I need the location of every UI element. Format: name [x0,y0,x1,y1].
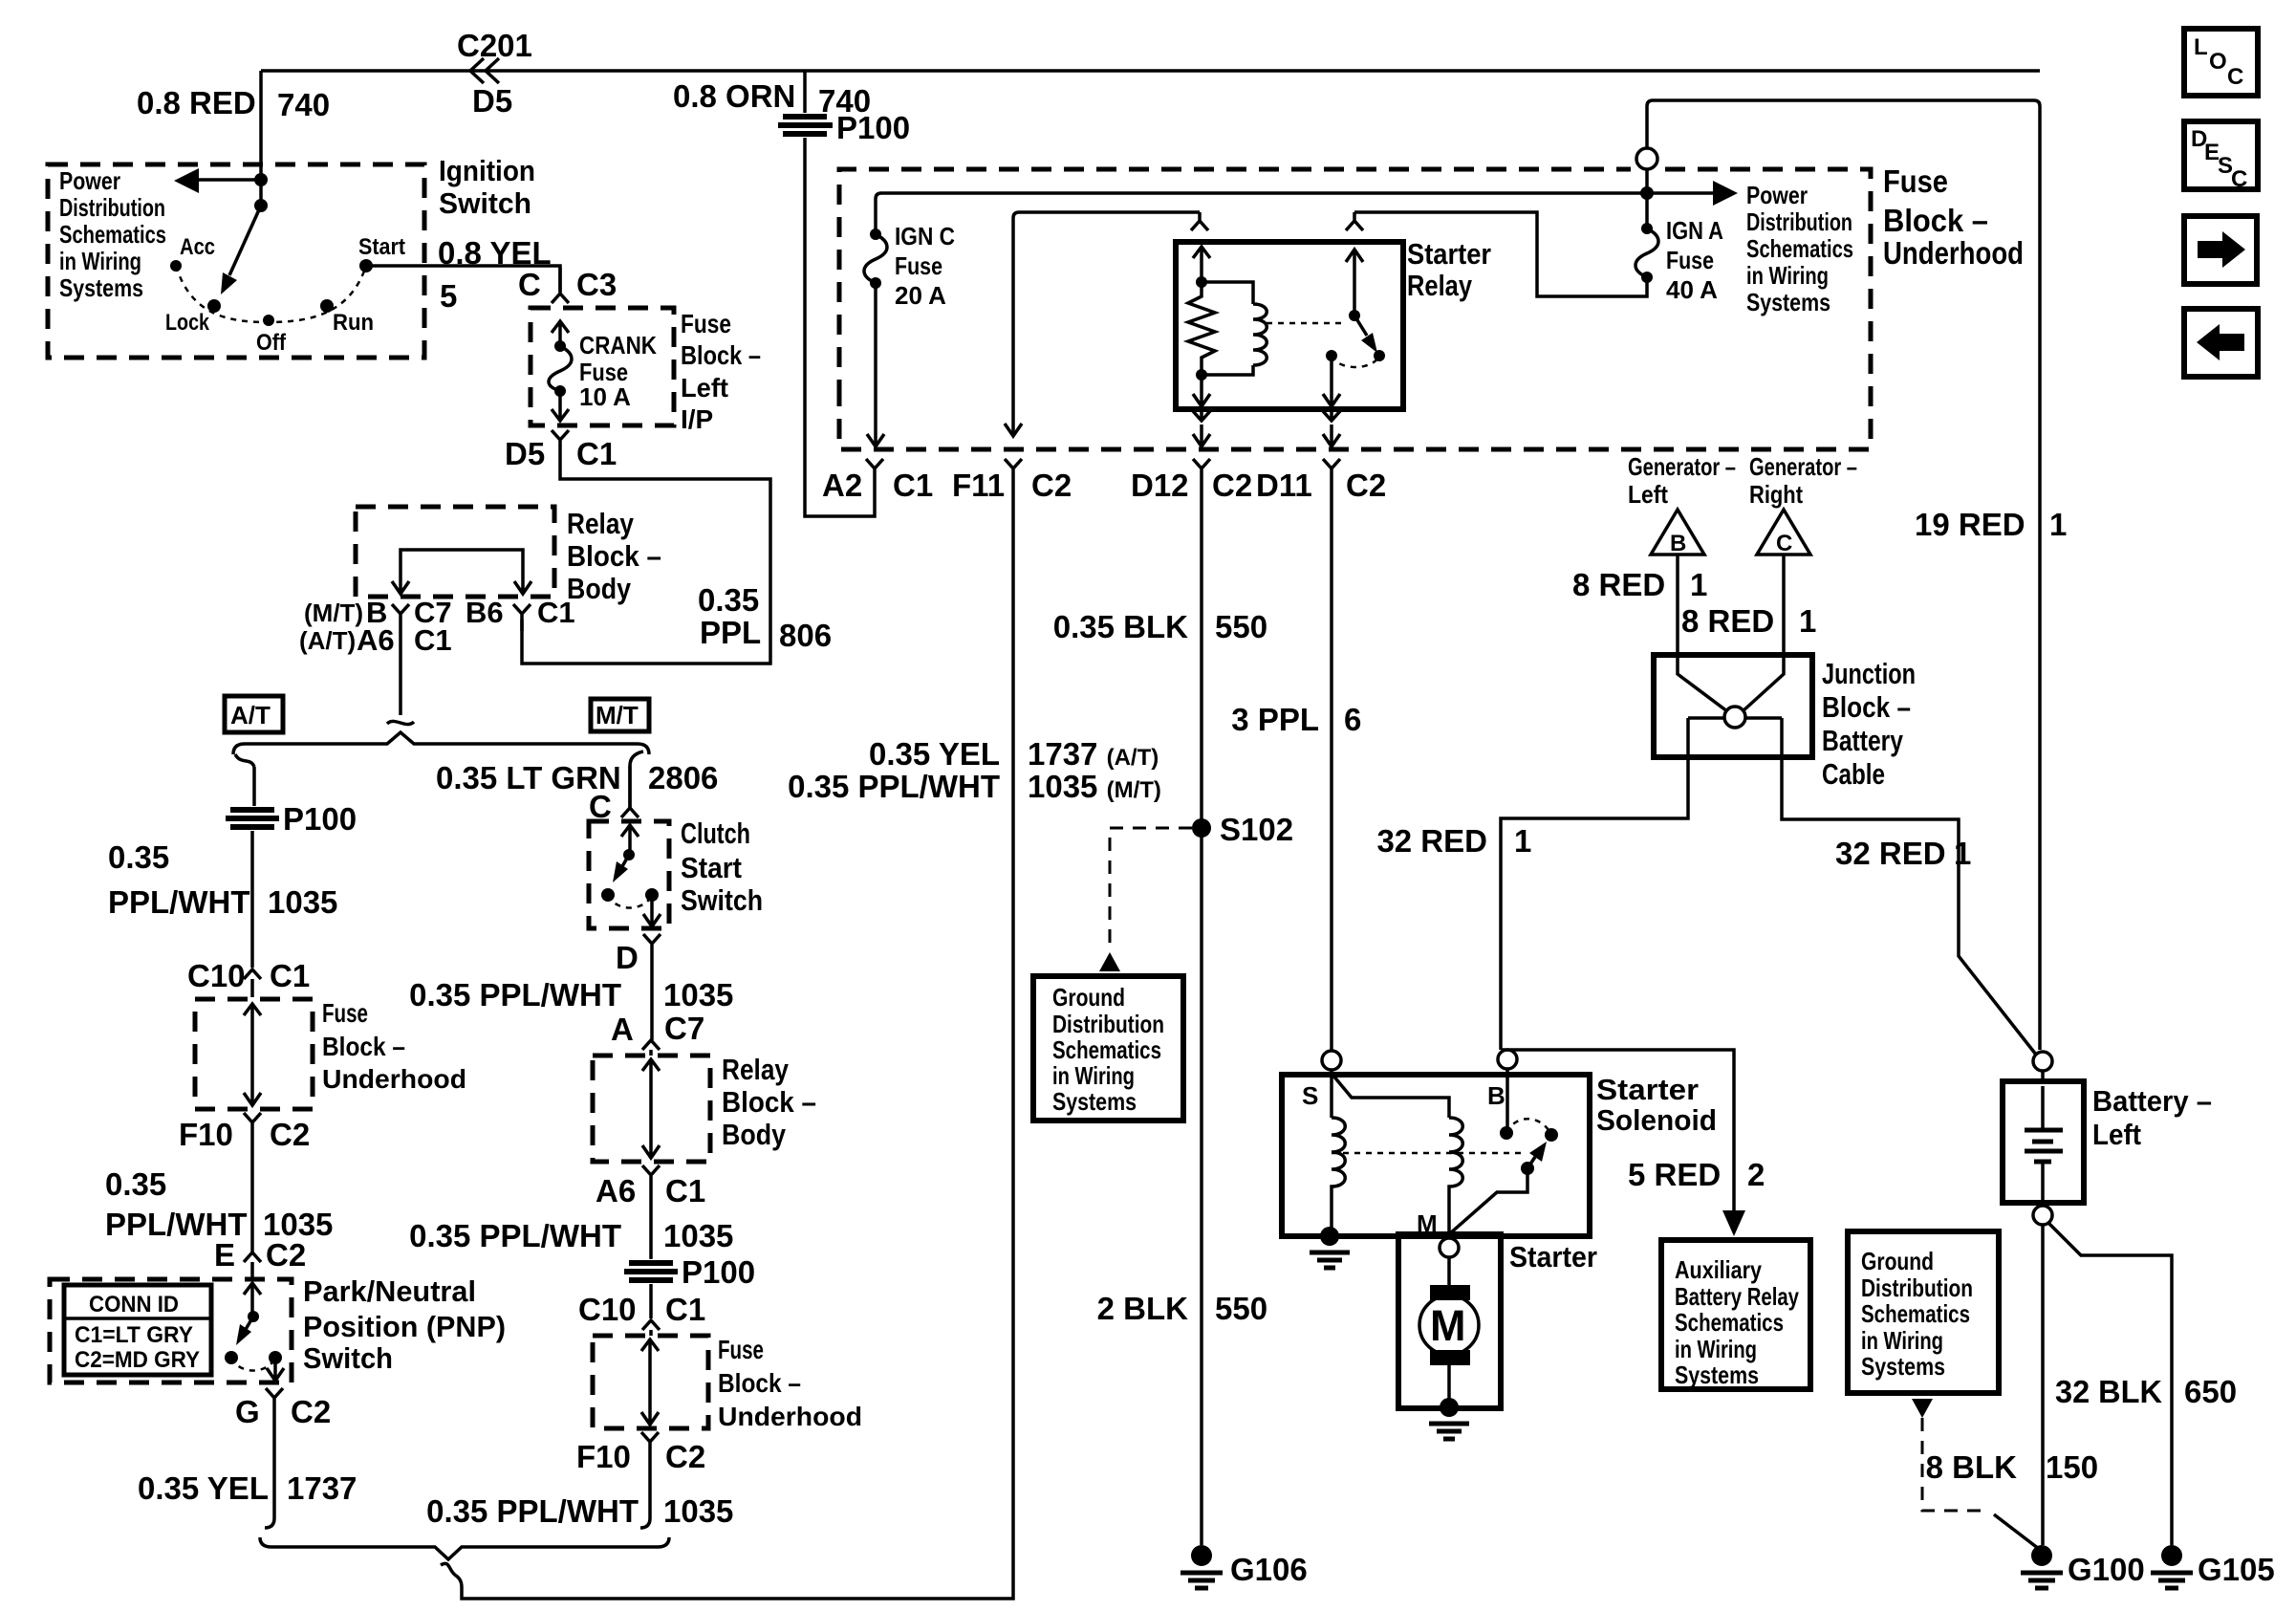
svg-text:(M/T): (M/T) [304,599,363,627]
switch arm [1354,316,1367,336]
svg-text:B: B [1487,1081,1505,1110]
svg-text:in Wiring: in Wiring [1052,1061,1135,1090]
svg-text:C1: C1 [537,596,575,629]
svg-text:C: C [589,789,612,824]
wire P100 to C10 [250,831,254,968]
LOC box [2184,29,2258,96]
ground G105 [2161,1545,2182,1566]
wire IGN A output to relay switch [1354,212,1647,296]
triangle B [1651,510,1704,555]
NO output arrow down [1323,356,1340,406]
switch arm arrow to Lock [229,206,261,275]
coil output arrow down [1193,375,1210,406]
svg-text:Starter: Starter [1596,1073,1699,1106]
wire M to motor [1447,1257,1451,1289]
svg-text:C3: C3 [576,267,617,302]
svg-text:Solenoid: Solenoid [1596,1103,1717,1137]
svg-text:32 RED: 32 RED [1376,823,1487,859]
svg-text:C7: C7 [664,1011,704,1046]
svg-text:C10: C10 [187,958,246,993]
wire gen B down [1676,555,1679,655]
svg-text:Battery: Battery [1822,724,1904,757]
connector A6-C1 [642,1165,660,1190]
svg-text:1: 1 [1954,836,1971,871]
contact dot Run [320,299,334,313]
split brace A/T vs M/T [233,732,649,754]
pivot dot [1521,1162,1534,1175]
internal jumper wire [392,550,531,594]
svg-text:Systems: Systems [59,273,143,302]
wire: 0.8 RED drop to ignition switch [259,71,263,206]
svg-text:Systems: Systems [1861,1352,1945,1381]
svg-text:6: 6 [1344,702,1361,737]
left arrow box [2184,309,2258,377]
connector A-C7 [642,1040,660,1056]
switch arm with arrowhead [245,1317,253,1331]
svg-text:Distribution: Distribution [1052,1010,1164,1038]
internal arrow wire [642,1059,660,1158]
svg-text:Starter: Starter [1407,237,1491,271]
svg-text:0.35 PPL/WHT: 0.35 PPL/WHT [788,769,1000,804]
fuse block underhood dashed box (left) [195,999,313,1109]
svg-text:0.35 BLK: 0.35 BLK [1053,609,1188,644]
fuse block underhood dashed box [839,169,1871,449]
svg-text:8 BLK: 8 BLK [1926,1449,2018,1485]
svg-text:F10: F10 [179,1117,233,1152]
svg-text:C2: C2 [1212,468,1252,503]
fuse IGN C 20A [870,229,881,240]
svg-text:1737: 1737 [287,1470,357,1506]
wire motor to ground [1447,1365,1451,1407]
svg-text:20 A: 20 A [895,281,946,310]
svg-text:Schematics: Schematics [1052,1035,1161,1064]
svg-text:0.35 YEL: 0.35 YEL [869,736,1000,772]
svg-text:Relay: Relay [567,507,635,540]
connector C-C3 [552,267,569,303]
battery top circle [2033,1052,2052,1071]
relay block body dashed box [356,507,554,597]
contact dot [225,1351,238,1364]
internal: S to coils [1332,1075,1449,1118]
wire: D5/C1 loop to relay block body B6/C1 (0.35 PPL 806) [522,450,770,664]
svg-text:Fuse: Fuse [681,309,731,338]
svg-text:0.35 PPL/WHT: 0.35 PPL/WHT [426,1493,639,1529]
junction block battery cable box [1654,655,1812,757]
svg-text:C1: C1 [414,623,452,657]
ignition switch dashed box [48,164,424,358]
input arrow [621,825,639,852]
connector F10-C2 [244,1113,261,1138]
ground G106 [1191,1545,1212,1566]
motor ground [1440,1398,1459,1417]
svg-text:Ground: Ground [1861,1247,1934,1275]
triangle C [1757,510,1810,555]
switch arm with arrowhead [1527,1157,1535,1168]
node dot [254,199,268,212]
DESC box [2184,121,2258,189]
connector C10-C1 [642,1320,660,1336]
svg-text:Power: Power [1746,181,1808,209]
svg-text:2 BLK: 2 BLK [1097,1291,1189,1326]
terminal circle on box edge [1645,106,1649,148]
coil [1202,282,1267,375]
connector A2-C1 [866,459,883,495]
svg-text:Lock: Lock [165,310,210,336]
wire F10 down [640,1457,650,1528]
svg-text:Systems: Systems [1746,288,1830,316]
svg-text:Block –: Block – [1883,203,1988,238]
contact dot Acc [170,260,182,272]
svg-text:C1: C1 [576,436,617,471]
junction dot on bus [1640,186,1654,200]
contact dot Off [263,315,274,326]
internal arrow wire [641,1339,659,1425]
svg-text:8 RED: 8 RED [1572,567,1665,602]
svg-text:P100: P100 [682,1254,755,1290]
dashed arc [231,1358,275,1371]
wire D12 down to G106 [1200,483,1203,1545]
svg-text:550: 550 [1215,1291,1267,1326]
svg-text:Fuse: Fuse [1666,246,1714,274]
svg-text:Schematics: Schematics [1746,234,1853,263]
svg-text:C1: C1 [665,1173,705,1208]
svg-text:G: G [235,1394,260,1429]
NO contact dot [1326,350,1337,361]
connector D5-C1 [552,430,569,450]
relay block body #2 dashed box [593,1056,710,1162]
svg-text:C2: C2 [270,1117,310,1152]
connector into relay coil [1191,212,1208,230]
svg-text:650: 650 [2184,1374,2237,1409]
svg-text:0.35 PPL/WHT: 0.35 PPL/WHT [409,977,621,1012]
ground distribution schematics box [1848,1231,1999,1393]
svg-text:8 RED: 8 RED [1681,603,1774,639]
output arrow down [267,1358,284,1381]
fuse CRANK 10A [554,340,566,352]
svg-text:C2: C2 [291,1394,331,1429]
internal V wires [1678,655,1784,711]
connector C201 double chevron [470,58,499,83]
svg-text:C: C [2231,166,2247,192]
svg-text:Power: Power [59,166,120,195]
svg-text:806: 806 [779,618,832,653]
B pin into box [1505,1069,1509,1133]
svg-text:Block –: Block – [681,340,761,370]
wire: Start output 0.8 YEL [366,266,560,292]
svg-text:P100: P100 [836,110,910,145]
M/T tag box [591,699,649,731]
svg-text:Relay: Relay [722,1053,790,1086]
wire: down from B/A6 to A/T-M/T split [399,626,402,715]
svg-text:1035: 1035 [663,1218,733,1253]
svg-text:Distribution: Distribution [59,193,165,222]
svg-text:0.35: 0.35 [105,1166,166,1202]
svg-text:Ignition: Ignition [439,154,535,187]
coil 1 [1332,1118,1345,1236]
svg-text:PPL/WHT: PPL/WHT [108,884,249,920]
svg-text:Block –: Block – [718,1368,801,1398]
fuse IGN A 40A [1641,223,1653,234]
connector F11-C2 [1005,459,1022,483]
wire P100 to C10 [649,1284,653,1318]
svg-text:Block –: Block – [567,539,661,573]
svg-text:Generator –: Generator – [1628,452,1736,481]
break squiggle [387,721,414,724]
svg-text:C2: C2 [1346,468,1386,503]
dashed arc of ignition positions [176,266,366,322]
merge brace [260,1537,669,1559]
wire: merged output to F11 [456,483,1013,1599]
break squiggle [235,754,254,767]
svg-text:Left: Left [2092,1118,2141,1151]
svg-text:Right: Right [1749,480,1803,509]
wire 19 RED from fuse block to battery [1647,100,2040,1050]
svg-text:A6: A6 [357,623,395,657]
svg-text:M: M [1430,1301,1466,1350]
svg-text:Fuse: Fuse [718,1335,764,1364]
svg-text:Systems: Systems [1675,1361,1759,1389]
wire down to P100 [252,767,256,806]
dashed actuator link [1267,322,1343,325]
svg-text:C2: C2 [665,1439,705,1474]
svg-text:IGN A: IGN A [1666,216,1723,245]
wire D to A [650,956,654,1040]
svg-text:Distribution: Distribution [1861,1274,1973,1302]
svg-text:1035: 1035 [663,1493,733,1529]
svg-text:D12: D12 [1131,468,1189,503]
battery box [2003,1081,2084,1203]
internal circle node [1724,707,1745,728]
grommet P100 [778,117,833,134]
svg-text:Underhood: Underhood [1883,235,2024,271]
dashed arc [1332,356,1379,367]
wire A6 to P100 [649,1190,653,1259]
svg-text:0.35: 0.35 [698,582,759,618]
wire: arrow to power distribution (left) [196,178,261,182]
switch common arrow up [1346,250,1363,316]
svg-text:C: C [1776,531,1792,556]
svg-text:740: 740 [277,87,330,122]
A/T tag box [225,696,283,732]
auxiliary battery relay schematics box [1661,1240,1810,1389]
connector B/A6 - C7/C1 [392,604,409,626]
wire P100 down to A2 [805,138,875,516]
svg-text:G105: G105 [2198,1552,2275,1587]
svg-text:C2: C2 [266,1237,306,1273]
break squiggle [630,751,643,766]
svg-text:D11: D11 [1256,468,1312,503]
svg-text:1035: 1035 [268,884,337,920]
coil1 ground [1320,1227,1339,1246]
svg-text:Ground: Ground [1052,983,1125,1012]
wire 32 RED into B + 5 RED branch [1501,1050,1734,1212]
svg-text:D: D [616,940,639,975]
ground distribution schematics box [1033,976,1183,1121]
wire battery to G100 [2041,1225,2045,1545]
battery bottom circle [2033,1206,2052,1225]
contact dot [645,888,659,902]
triangle arrow below [1912,1399,1933,1418]
svg-text:IGN C: IGN C [895,222,955,250]
connector C10-C1 [244,969,261,997]
ground G100 [2031,1545,2052,1566]
svg-text:1: 1 [1799,603,1816,639]
svg-text:1: 1 [1690,567,1707,602]
arrow up inside [552,321,569,346]
svg-text:C1: C1 [270,958,310,993]
grommet P100 [624,1263,678,1280]
break squiggle [441,1563,456,1576]
svg-text:A2: A2 [822,468,862,503]
svg-text:Schematics: Schematics [1861,1299,1970,1328]
coil input arrow [1193,247,1210,282]
svg-text:2806: 2806 [648,760,718,795]
svg-text:Switch: Switch [303,1341,393,1375]
dashed arc [608,895,652,908]
svg-text:Distribution: Distribution [1746,207,1852,236]
wire D11 down to S terminal [1330,483,1333,1050]
svg-text:Block –: Block – [322,1032,405,1061]
svg-text:10 A: 10 A [579,382,631,411]
wire down to C [628,766,632,808]
svg-text:G100: G100 [2068,1552,2145,1587]
wire: top horizontal 0.8 RED / 0.8 ORN bus [261,69,2040,73]
svg-text:19 RED: 19 RED [1915,507,2025,542]
svg-text:O: O [2209,49,2227,75]
relay outputs through fuse block bottom [1193,409,1210,446]
svg-text:C1: C1 [893,468,933,503]
svg-text:Park/Neutral: Park/Neutral [303,1274,476,1308]
starter solenoid box [1282,1075,1590,1236]
coil 2 [1449,1118,1462,1236]
arm end dot [1374,350,1385,361]
svg-text:P100: P100 [283,801,357,837]
svg-text:Start: Start [681,851,742,884]
connector D [643,934,661,956]
svg-text:Run: Run [333,310,374,336]
wire gen C down [1782,555,1786,655]
svg-text:Block –: Block – [722,1085,816,1119]
svg-text:L: L [2194,34,2208,60]
svg-text:in Wiring: in Wiring [1675,1335,1757,1363]
svg-text:32 RED: 32 RED [1835,836,1946,871]
svg-text:C1: C1 [665,1292,705,1327]
svg-text:5: 5 [440,278,457,314]
main internal bus wire with arrow to Power Distribution [876,193,1719,234]
svg-text:Position (PNP): Position (PNP) [303,1310,506,1343]
svg-text:(A/T): (A/T) [299,626,356,655]
svg-text:Switch: Switch [439,186,531,220]
svg-text:S: S [1302,1081,1318,1110]
svg-text:Cable: Cable [1822,757,1885,791]
fuse block underhood #2 dashed box [593,1336,708,1428]
svg-text:PPL: PPL [700,615,761,650]
svg-text:Body: Body [722,1118,787,1151]
svg-text:5 RED: 5 RED [1628,1157,1721,1192]
connector G-C2 [266,1388,283,1422]
pivot dot [623,849,635,860]
svg-text:150: 150 [2046,1449,2098,1485]
svg-text:Switch: Switch [681,883,763,917]
svg-text:1: 1 [1514,823,1531,859]
svg-text:in Wiring: in Wiring [1746,261,1829,290]
dashed arc [1506,1119,1551,1135]
svg-text:Fuse: Fuse [895,251,942,280]
contact dot [269,1351,282,1364]
node dot [1196,276,1207,288]
svg-text:in Wiring: in Wiring [59,247,141,275]
node dot [254,173,268,186]
motor symbol [1430,1285,1470,1300]
starter relay box [1176,242,1403,409]
svg-text:F10: F10 [576,1439,631,1474]
svg-text:C: C [518,267,541,302]
pivot dot [1349,310,1360,321]
S pin into box [1330,1070,1333,1075]
wire bus continues through dot (drawn in bus) [1645,193,1649,229]
connector D11-C2 [1323,459,1340,483]
svg-text:in Wiring: in Wiring [1861,1326,1943,1355]
svg-text:0.8 RED: 0.8 RED [137,85,256,120]
svg-text:F11: F11 [952,468,1005,503]
wire ORN down [803,71,807,113]
B terminal circle [1498,1050,1517,1069]
svg-text:Generator –: Generator – [1749,452,1857,481]
svg-text:Underhood: Underhood [718,1402,862,1431]
svg-text:Body: Body [567,572,632,605]
svg-text:M/T: M/T [596,701,639,729]
svg-text:0.35 YEL: 0.35 YEL [138,1470,269,1506]
svg-text:Junction: Junction [1822,657,1916,690]
svg-text:Fuse: Fuse [1883,163,1948,199]
grommet P100 [226,810,279,827]
svg-text:0.35: 0.35 [108,839,169,875]
svg-text:Fuse: Fuse [322,998,368,1028]
svg-text:Systems: Systems [1052,1087,1137,1116]
svg-text:Acc: Acc [180,234,215,260]
dashed reference wire [1110,828,1192,948]
contact dot [601,888,615,902]
clutch start switch dashed box [589,821,669,928]
svg-text:Left: Left [1628,480,1668,509]
arm contact dot [1545,1128,1558,1142]
connector E-C2 [244,1252,261,1279]
svg-text:A6: A6 [596,1173,636,1208]
svg-text:Relay: Relay [1407,269,1473,302]
connector D12-C2 [1193,459,1210,483]
pivot dot [248,1311,259,1322]
wire F11 branch [1013,212,1200,435]
svg-text:C201: C201 [457,28,532,63]
svg-text:B: B [1670,531,1686,556]
svg-text:A: A [611,1012,634,1047]
svg-text:G106: G106 [1230,1552,1308,1587]
svg-text:Battery –: Battery – [2092,1084,2212,1118]
svg-text:E: E [214,1237,235,1273]
svg-text:0.8 ORN: 0.8 ORN [673,78,795,114]
arm arrow [621,855,629,868]
right arrow box [2184,216,2257,284]
switch: input arrow [244,1283,261,1314]
svg-text:C10: C10 [578,1292,637,1327]
fuse block left I/P dashed box [531,308,674,425]
M terminal circle [1440,1238,1459,1257]
svg-text:I/P: I/P [681,404,713,434]
splice S102 [1192,818,1211,838]
internal arrow wire [244,1004,261,1105]
svg-text:Schematics: Schematics [59,220,166,249]
arm to M [1449,1168,1527,1234]
